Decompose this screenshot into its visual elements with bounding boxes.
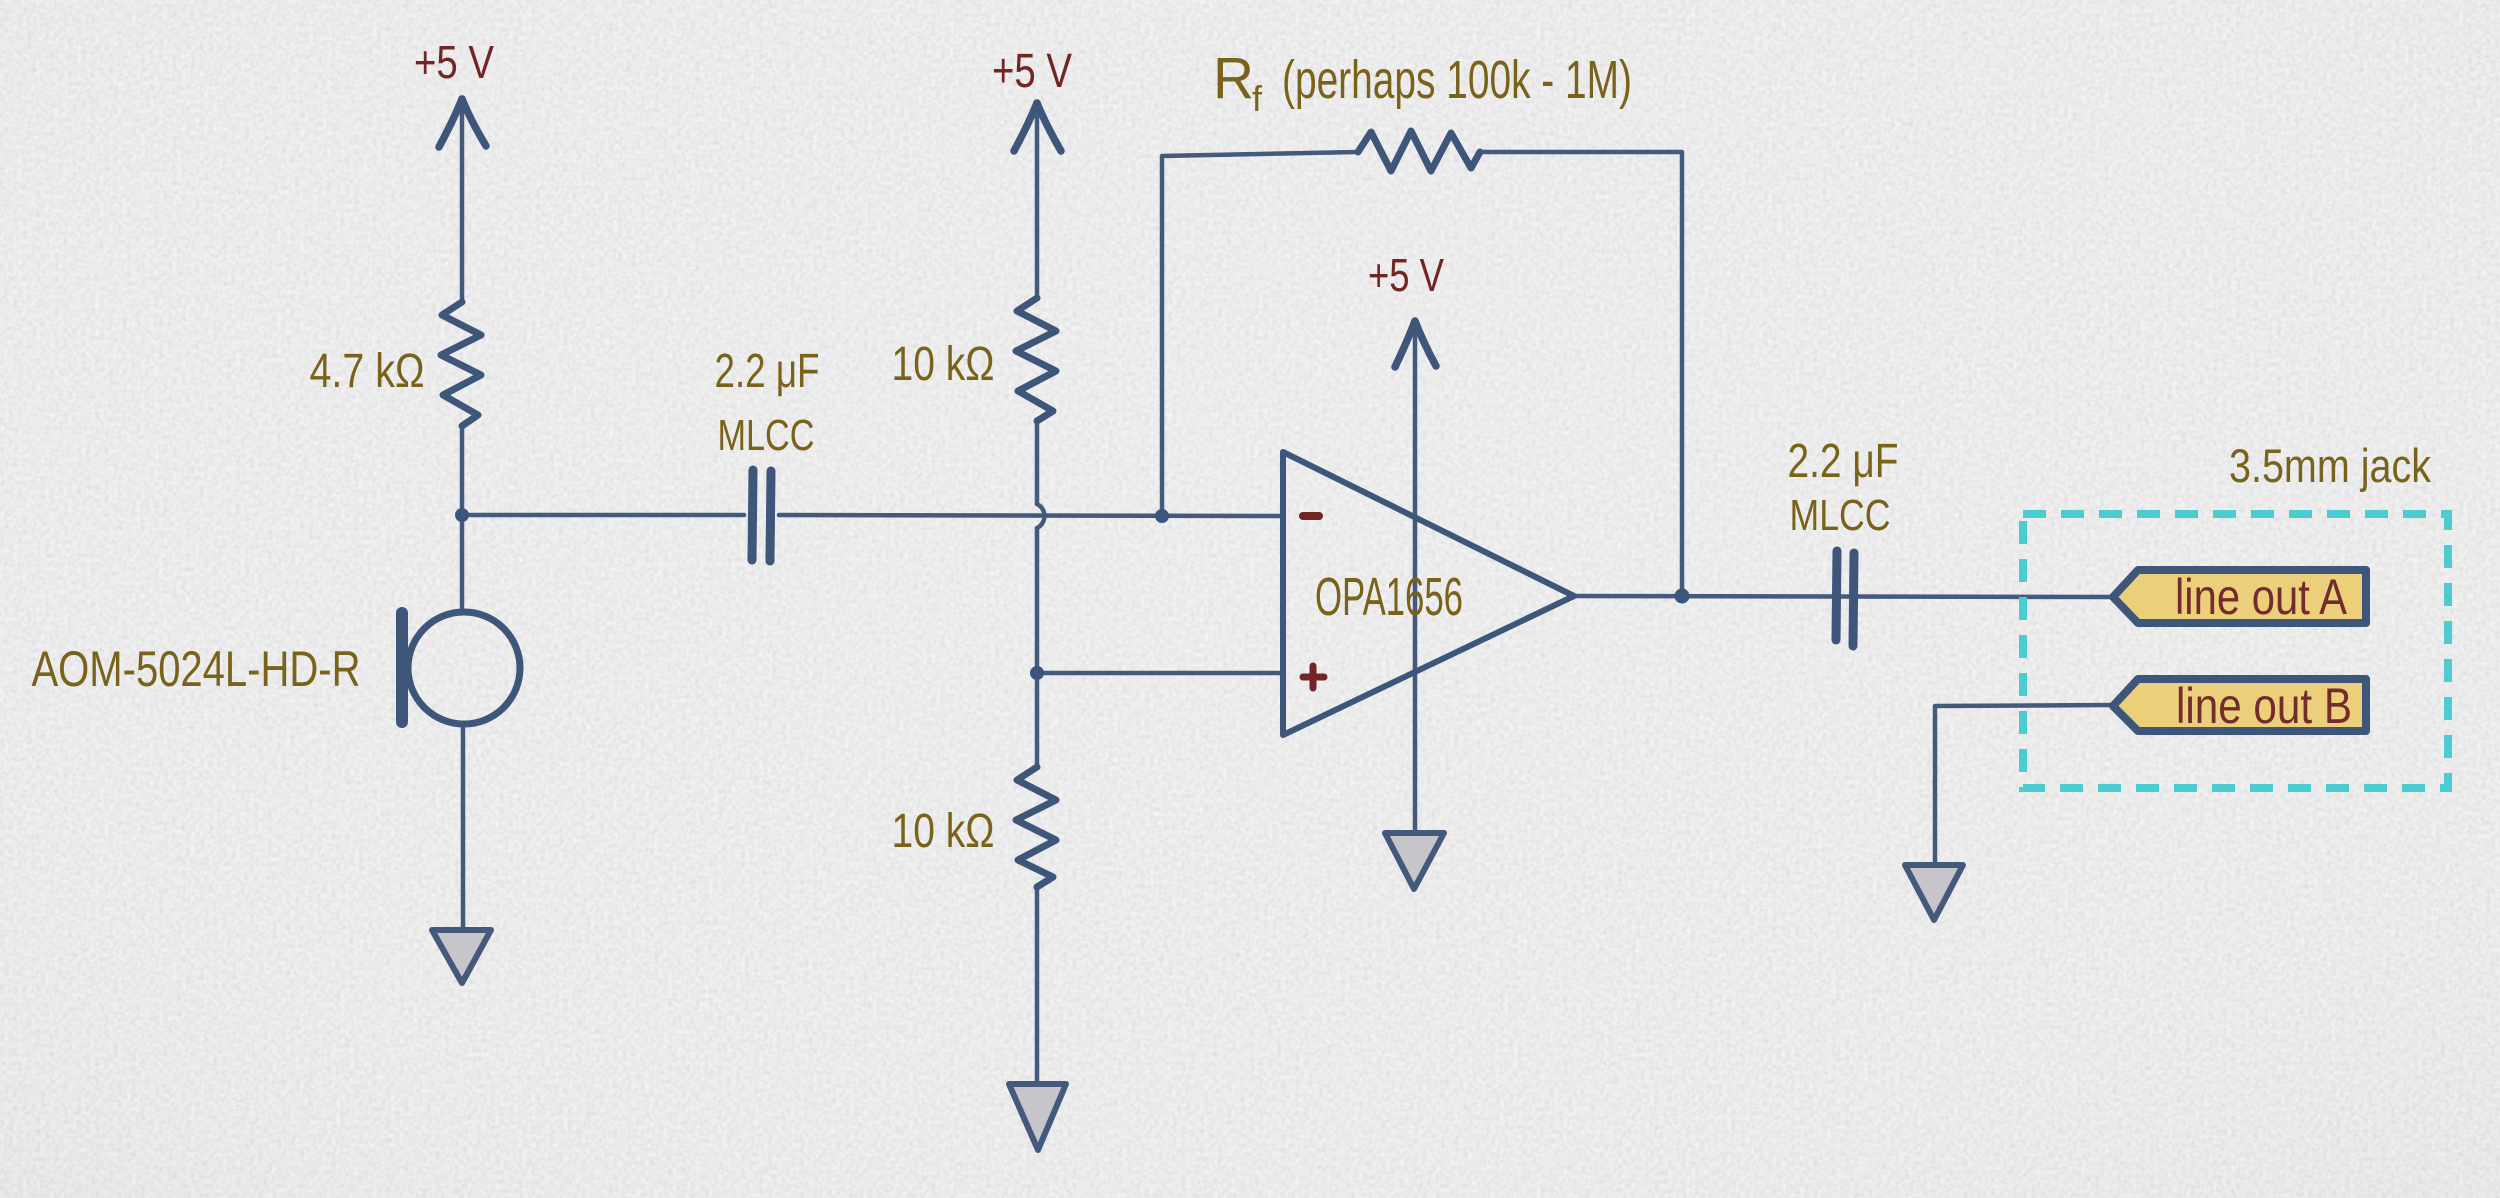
svg-text:AOM-5024L-HD-R: AOM-5024L-HD-R — [32, 641, 361, 697]
svg-text:R: R — [1213, 46, 1254, 111]
svg-text:2.2 μF: 2.2 μF — [1788, 435, 1899, 488]
svg-text:+5 V: +5 V — [414, 36, 494, 88]
svg-text:OPA1656: OPA1656 — [1315, 567, 1463, 627]
svg-text:10 kΩ: 10 kΩ — [892, 805, 995, 858]
svg-text:line out B: line out B — [2176, 678, 2352, 734]
svg-text:MLCC: MLCC — [718, 411, 815, 460]
svg-text:+5 V: +5 V — [1368, 249, 1444, 301]
svg-text:line out A: line out A — [2175, 569, 2348, 625]
svg-text:MLCC: MLCC — [1790, 491, 1891, 540]
svg-text:10 kΩ: 10 kΩ — [892, 338, 995, 391]
svg-text:3.5mm jack: 3.5mm jack — [2229, 439, 2431, 492]
svg-text:f: f — [1252, 78, 1263, 119]
svg-text:(perhaps 100k - 1M): (perhaps 100k - 1M) — [1282, 50, 1632, 110]
svg-text:+5 V: +5 V — [992, 45, 1072, 98]
svg-text:4.7 kΩ: 4.7 kΩ — [310, 345, 425, 398]
svg-text:2.2 μF: 2.2 μF — [715, 345, 820, 398]
